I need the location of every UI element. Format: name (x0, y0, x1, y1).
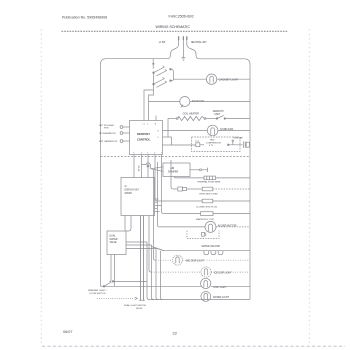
wire defrost limit to rail (226, 118, 250, 120)
wire jog (142, 164, 147, 166)
leader arrow (135, 297, 138, 299)
wire rung A right (216, 177, 251, 179)
defrost control box (130, 121, 163, 155)
svg-text:BK WH: BK WH (139, 164, 141, 171)
wire cabinet light to rail (217, 78, 250, 80)
motor auger (205, 221, 216, 232)
wire neutral drop (187, 44, 201, 59)
auger capacitor (202, 232, 205, 236)
svg-text:THERMAL FUSE WIRE: THERMAL FUSE WIRE (197, 180, 221, 183)
disp filament (204, 281, 208, 288)
wire coil heater stub (168, 118, 177, 120)
page border right dots (308, 30, 310, 343)
wire switch feed (152, 59, 154, 69)
svg-text:4: 4 (141, 152, 142, 154)
svg-text:CABINET LIGHT: CABINET LIGHT (219, 78, 239, 82)
wire riser f (171, 160, 173, 189)
svg-text:PTC: PTC (196, 141, 200, 143)
overload (246, 142, 249, 147)
tstat C box (202, 199, 213, 203)
wire riser g (153, 170, 155, 260)
wire ui right pin1 (155, 205, 162, 207)
lamp mid disp light (173, 255, 183, 265)
svg-text:DEFROST: DEFROST (137, 132, 150, 136)
neutral right rail (201, 59, 250, 300)
wire switch to control B (144, 90, 154, 121)
wire pin4 down (141, 155, 143, 178)
wire hop (146, 163, 149, 165)
thermistor circle (120, 140, 123, 143)
wire cond fan rung (163, 130, 208, 132)
motor cond fan (207, 125, 218, 136)
bottom page border (dashed) (42, 345, 345, 347)
wire pin6 riser (154, 155, 156, 163)
wire pin7 riser (161, 155, 163, 163)
defrost pin stub (123, 140, 130, 142)
wire defrost pin3 (163, 144, 172, 146)
wire ui to wv2 (126, 216, 131, 232)
wire damper out (190, 169, 199, 171)
leader dotted (97, 297, 134, 299)
wire wv drop1 (110, 255, 112, 282)
terminal (204, 118, 206, 120)
heater D box (201, 212, 213, 216)
terminal (176, 118, 178, 120)
cabinet light filament (210, 76, 213, 82)
wire rung L4 (149, 298, 250, 300)
svg-text:WATER FILL CUP: WATER FILL CUP (196, 218, 214, 221)
svg-text:EVAP FAN: EVAP FAN (192, 99, 205, 103)
wire evap fan rung left (149, 101, 180, 103)
svg-text:CONTROL: CONTROL (137, 138, 151, 142)
air damper box (163, 163, 190, 177)
wire ui right pin0b (155, 201, 158, 203)
svg-text:HIGH SIDE TSTAT: HIGH SIDE TSTAT (199, 192, 218, 195)
wire rung D right (213, 213, 250, 215)
cond fan filament (211, 128, 215, 135)
wire L1 drop (166, 44, 179, 59)
terminal damper (199, 169, 201, 171)
ground symbol (182, 58, 186, 61)
header rule (dashed) (62, 30, 289, 32)
svg-text:5: 5 (147, 152, 148, 154)
svg-text:8: 8 (158, 130, 159, 132)
wire riser d (162, 162, 164, 214)
wire fan diag2 (156, 248, 164, 251)
wire ui pin down2 (142, 216, 144, 301)
wire pin3 down (133, 155, 135, 178)
ice maker enclosure (187, 231, 219, 239)
wire rung L2 dotted (151, 271, 201, 273)
svg-text:DUAL: DUAL (110, 234, 117, 237)
svg-text:06/07: 06/07 (63, 330, 73, 334)
svg-text:CLOSED WTD PLUS: CLOSED WTD PLUS (196, 206, 217, 208)
wire v3 (156, 248, 158, 299)
wire rung C right (213, 200, 250, 202)
wire ui to wv1 (124, 216, 126, 232)
door switch S2 (153, 77, 172, 87)
wire rung L3 right (211, 285, 250, 287)
wire riser h (149, 216, 151, 273)
svg-text:DISPLAY KEY: DISPLAY KEY (125, 188, 140, 191)
lamp water light (201, 292, 211, 302)
wire cabinet light rung (174, 78, 207, 80)
svg-text:BK: BK (152, 63, 155, 65)
svg-text:NEUTRAL WH: NEUTRAL WH (191, 41, 207, 44)
wire riser to compressor (172, 137, 196, 145)
svg-text:L1 BK: L1 BK (159, 41, 166, 44)
svg-text:COMPRESSOR: COMPRESSOR (206, 142, 222, 144)
wire cond fan to rail (218, 130, 250, 132)
svg-text:7: 7 (161, 152, 162, 154)
svg-text:LIMIT: LIMIT (214, 114, 220, 116)
lamp cabinet light (206, 74, 216, 84)
ground wire (182, 44, 184, 57)
auger filament (209, 224, 213, 231)
wire bump rung (164, 250, 250, 252)
wire rung L1 dotted (156, 259, 173, 261)
wire rung L2 right (211, 271, 250, 273)
wire auger to rail (216, 226, 250, 228)
thermistor circle (120, 132, 123, 135)
connector bumps (204, 251, 209, 255)
svg-text:PUR: PUR (104, 128, 109, 130)
L1 left rail (101, 59, 166, 287)
svg-text:N: N (155, 123, 157, 125)
svg-text:FRZ THERMISTOR: FRZ THERMISTOR (99, 141, 118, 143)
svg-text:VALVE: VALVE (110, 241, 118, 244)
svg-text:WATER: WATER (110, 238, 118, 241)
pin N stub (155, 116, 157, 121)
svg-text:DUAL LIGHT SWITCH: DUAL LIGHT SWITCH (124, 304, 146, 307)
heater A box (204, 176, 216, 180)
wire switch right join (171, 69, 174, 81)
wire evap fan to rail (190, 101, 250, 103)
wire ui right pin2 (155, 208, 158, 210)
svg-text:22: 22 (173, 331, 178, 336)
wire rung B right dashed (213, 188, 250, 190)
wire ui pin down1 (139, 216, 141, 301)
wire coil heater left riser (167, 119, 169, 138)
wire rung A (175, 177, 202, 179)
wire wv drop2 (114, 255, 116, 287)
wire switch branch (113, 280, 147, 282)
wire jog2 (149, 165, 152, 169)
svg-text:W/ THERMISTOR: W/ THERMISTOR (99, 133, 116, 135)
lamp disp light (201, 278, 211, 288)
svg-text:3: 3 (133, 152, 134, 154)
motor evap fan (180, 97, 190, 107)
door switch S1 (153, 66, 172, 76)
wire riser a (157, 162, 159, 227)
svg-text:DAMPER: DAMPER (168, 171, 179, 174)
wire rung L1 right (183, 259, 251, 261)
svg-text:RED: RED (210, 140, 215, 142)
svg-text:FHSC2505HS02: FHSC2505HS02 (169, 15, 194, 19)
wire rung L3 (101, 285, 202, 287)
wire compressor internal (200, 144, 204, 146)
left page border (dotted) (40, 30, 42, 343)
ice disp filament (204, 269, 207, 275)
compressor S terminal (228, 144, 230, 146)
wire connector line (173, 188, 177, 190)
wire v4 (161, 251, 163, 300)
svg-text:DOOR SWITCH: DOOR SWITCH (90, 293, 106, 295)
thermistor circle (120, 126, 123, 129)
right page border (dotted) (308, 30, 310, 343)
power plug prongs (179, 36, 187, 44)
svg-text:6: 6 (154, 152, 155, 154)
svg-text:9: 9 (158, 137, 159, 139)
svg-text:COIL HEATER: COIL HEATER (183, 113, 200, 116)
evap fan mark (181, 105, 183, 108)
svg-text:WIRING SCHEMATIC: WIRING SCHEMATIC (156, 25, 191, 29)
wire defrost pin to riser (163, 136, 172, 138)
svg-text:2: 2 (147, 123, 148, 125)
svg-text:FREEZER LIGHT /: FREEZER LIGHT / (88, 290, 107, 292)
svg-text:Publication No. 5995498908: Publication No. 5995498908 (62, 15, 107, 19)
run capacitor (240, 141, 246, 148)
connector pair (178, 187, 183, 191)
wire rung C (157, 200, 202, 202)
compressor box (192, 137, 241, 152)
wire damper stub to rung A (174, 177, 176, 178)
wire switch left join (153, 73, 155, 85)
defrost pin stub (123, 132, 130, 134)
wire to defrost limit (206, 118, 216, 120)
wire v1 (147, 242, 149, 300)
svg-text:RUN CAP: RUN CAP (234, 136, 244, 139)
svg-text:WATER LIGHT: WATER LIGHT (213, 296, 230, 299)
wire fan to damper (151, 167, 163, 172)
wire wv pin2 (126, 244, 152, 246)
wire damper out2 (201, 168, 207, 172)
water valve box (107, 231, 126, 255)
wire wv pin3 (126, 247, 156, 249)
svg-text:4 TV: 4 TV (209, 145, 214, 147)
wire rung E (160, 226, 205, 228)
page border left dots (40, 30, 42, 343)
terminal on pin5 (147, 165, 149, 167)
resistor coil heater (178, 116, 205, 120)
wire pin5 down (147, 155, 149, 178)
wire dashed bus (101, 155, 251, 157)
switch freezer light (103, 286, 105, 288)
wire riser e (155, 162, 157, 201)
wire v2 (152, 245, 154, 300)
wire ui right pin0 (155, 198, 159, 200)
wire fan diag1 (152, 247, 165, 251)
svg-text:L1: L1 (143, 123, 145, 125)
svg-text:W/PAD: W/PAD (125, 192, 133, 195)
switch defrost limit (216, 118, 218, 120)
svg-text:WATER ICE DISP: WATER ICE DISP (202, 245, 221, 248)
wire rung D (164, 213, 201, 215)
defrost pin stub (123, 126, 130, 128)
wire wv pin1 (126, 241, 147, 243)
ui control box (121, 178, 155, 216)
wire ui right pin3 (155, 211, 160, 213)
compressor PTC (196, 143, 200, 147)
svg-text:RH SW: RH SW (136, 308, 143, 310)
water filament (204, 294, 208, 301)
wire switch to control A (149, 84, 154, 120)
mid disp filament (176, 257, 179, 263)
lamp ice disp light (201, 267, 211, 277)
svg-text:UI: UI (125, 186, 128, 188)
tstat B box (202, 187, 213, 191)
